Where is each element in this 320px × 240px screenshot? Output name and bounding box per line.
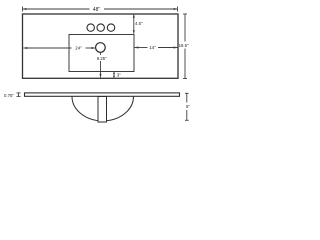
svg-text:4.5": 4.5" xyxy=(135,21,143,26)
svg-text:9.25": 9.25" xyxy=(97,56,107,61)
svg-text:14": 14" xyxy=(149,45,156,50)
svg-text:5": 5" xyxy=(186,104,190,109)
svg-text:24": 24" xyxy=(75,46,82,51)
svg-text:18.5": 18.5" xyxy=(179,43,189,48)
svg-text:48": 48" xyxy=(93,7,101,13)
svg-text:3": 3" xyxy=(117,72,121,77)
svg-text:0.75": 0.75" xyxy=(4,93,14,98)
